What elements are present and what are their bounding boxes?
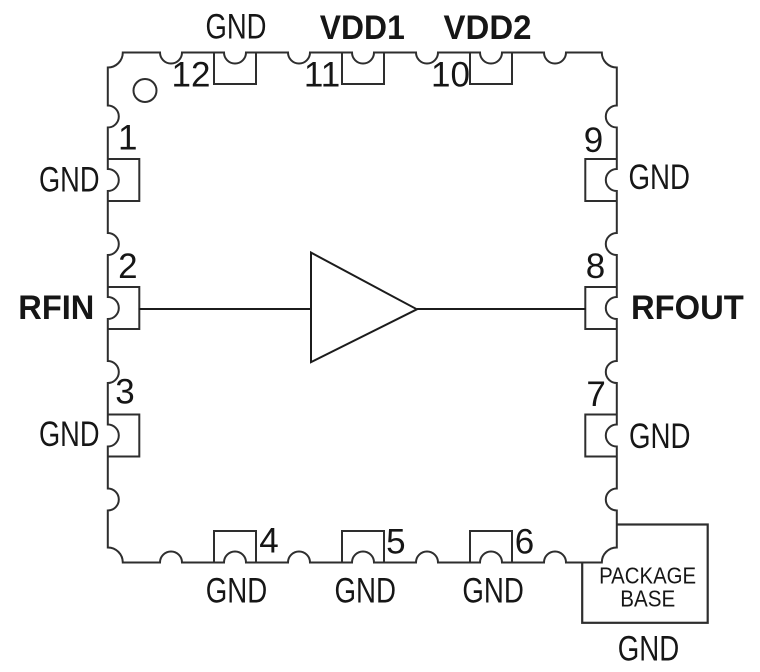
svg-text:VDD1: VDD1 — [320, 9, 405, 47]
svg-text:3: 3 — [115, 373, 134, 412]
svg-text:VDD2: VDD2 — [444, 9, 532, 47]
svg-text:GND: GND — [335, 572, 397, 611]
pin 3 pad — [108, 415, 140, 457]
svg-text:1: 1 — [118, 119, 137, 158]
svg-text:GND: GND — [462, 572, 524, 611]
pin 8 pad — [585, 287, 617, 329]
pin 5 pad — [342, 531, 384, 563]
svg-text:4: 4 — [259, 522, 278, 561]
svg-text:10: 10 — [431, 56, 470, 95]
pin 7 pad — [585, 415, 617, 457]
wire RFIN pin 2 to amplifier input — [139, 308, 311, 310]
svg-text:GND: GND — [206, 8, 267, 47]
svg-text:GND: GND — [629, 417, 691, 456]
svg-text:RFOUT: RFOUT — [631, 289, 744, 327]
svg-text:8: 8 — [586, 247, 605, 286]
svg-text:GND: GND — [629, 158, 691, 197]
pin 4 pad — [214, 531, 256, 563]
wire amplifier output to RFOUT pin 8 — [417, 308, 586, 310]
pin 1 pad — [108, 159, 140, 201]
svg-text:RFIN: RFIN — [18, 289, 94, 327]
pin 10 pad — [470, 53, 512, 85]
pin 11 pad — [342, 53, 384, 85]
pin 6 pad — [470, 531, 512, 563]
svg-text:GND: GND — [618, 630, 680, 669]
pin 9 pad — [585, 159, 617, 201]
package body outline (12-lead QFN, scalloped edges) — [108, 53, 617, 563]
svg-text:6: 6 — [515, 523, 534, 562]
svg-text:GND: GND — [206, 572, 268, 611]
svg-text:5: 5 — [386, 523, 405, 562]
svg-text:11: 11 — [304, 56, 340, 95]
svg-text:BASE: BASE — [620, 586, 675, 612]
svg-text:GND: GND — [39, 160, 100, 199]
op-amp U1 amplifier triangle — [311, 253, 417, 363]
pin 1 indicator circle — [134, 79, 157, 102]
svg-text:7: 7 — [586, 375, 605, 414]
pin 2 pad — [108, 287, 140, 329]
svg-text:GND: GND — [39, 415, 100, 454]
package base pad (exposed paddle) — [582, 525, 708, 623]
svg-text:9: 9 — [584, 121, 603, 160]
pin 12 pad — [214, 53, 256, 85]
svg-text:2: 2 — [118, 247, 137, 286]
svg-text:12: 12 — [172, 56, 211, 95]
